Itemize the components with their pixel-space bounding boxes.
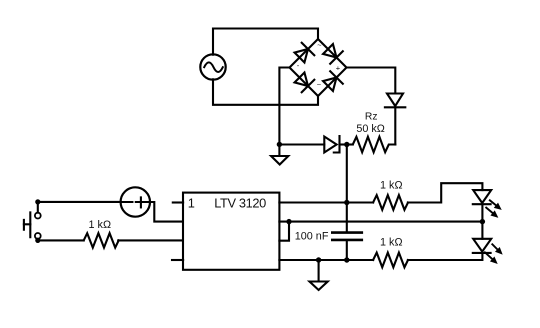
wire: IC right row D to R3 [279, 259, 373, 261]
resistor R1 1 kOhm (bottom left) [84, 233, 119, 247]
junction dot at zener/Rz node [344, 142, 349, 147]
wire: ground node to diode D6 anode [279, 143, 324, 145]
IC U1 LTV 3120 body [183, 193, 279, 270]
IC pin stub left bottom [172, 259, 183, 261]
wire: DC source to IC pin row B [150, 202, 183, 222]
diode D5 (vertical, on plus branch) [385, 94, 405, 108]
svg-text:1 kΩ: 1 kΩ [89, 219, 111, 231]
wire: D5 cathode down to Rz [394, 107, 396, 144]
svg-text:~: ~ [317, 80, 322, 89]
ground symbol G2 [310, 262, 328, 290]
bridge diode D4 (bottom corner to right corner) [323, 71, 343, 91]
wire bottom: AC source bottom to bridge lower AC node [213, 79, 318, 105]
AC source V1 [200, 54, 225, 79]
wire: row B U-stub back into IC row C [279, 222, 289, 241]
bridge rectifier B1 diamond outline [290, 39, 347, 96]
svg-text:-: - [297, 61, 300, 70]
wire: button top terminal to DC source [38, 201, 121, 203]
capacitor C1 100 nF [332, 203, 362, 261]
resistor R3 1 kOhm (bottom right) [373, 253, 408, 268]
junction dot at ground node [277, 142, 282, 147]
wire top: AC source top to bridge AC node [213, 29, 318, 55]
wire: IC right row A to R2 [279, 201, 373, 203]
bridge diode D1 (left corner to top corner) [295, 43, 315, 63]
junction dot near IC row B [286, 219, 291, 224]
svg-text:1 kΩ: 1 kΩ [380, 237, 402, 249]
wire: zener node down to IC output node [346, 145, 348, 203]
junction dot capacitor bottom [344, 257, 349, 262]
junction dot row A / capacitor top [344, 200, 349, 205]
svg-text:LTV 3120: LTV 3120 [214, 196, 266, 211]
junction dot ground2 [316, 257, 321, 262]
IC right row B wire to LED junction [279, 221, 482, 223]
resistor R2 1 kOhm (top right) [373, 195, 408, 210]
svg-text:100 nF: 100 nF [295, 230, 329, 242]
bridge diode D3 (left corner to bottom corner) [295, 73, 315, 93]
LED1 [473, 190, 501, 222]
DC source U2 (circle with plus) [121, 187, 150, 216]
push button S1 [24, 199, 41, 243]
resistor Rz 50 kOhm (horizontal zigzag) [347, 137, 396, 152]
wire: bridge plus terminal to zener branch [347, 68, 396, 94]
wire: R3 to LED2 cathode [408, 253, 483, 260]
svg-text:+: + [336, 64, 341, 73]
svg-text:~: ~ [317, 41, 322, 50]
wire: R2 to LED1 anode (up and over) [408, 183, 483, 202]
svg-text:Rz: Rz [365, 111, 378, 122]
svg-text:1: 1 [188, 196, 195, 211]
wire: button bottom terminal to R1 [38, 239, 84, 241]
ground symbol G1 [271, 147, 288, 165]
bridge diode D2 (top corner to right corner) [323, 44, 343, 64]
IC pin stub left pin1 [173, 201, 183, 203]
diode D6 (horizontal zener, pointing right) [324, 136, 339, 153]
svg-text:50 kΩ: 50 kΩ [356, 123, 384, 135]
LED2 [473, 222, 502, 264]
wire: bridge minus terminal to ground node [279, 68, 289, 145]
wire: R1 to IC left pin row C [118, 239, 183, 241]
junction dot between LEDs [480, 219, 485, 224]
svg-text:1 kΩ: 1 kΩ [380, 179, 402, 191]
wire: D6 cathode to junction [340, 143, 353, 145]
